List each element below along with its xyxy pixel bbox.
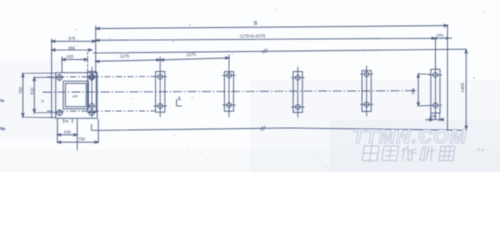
svg-text:750: 750 [18, 86, 23, 94]
watermark TTMN.COM [353, 126, 468, 148]
plate P1 at flange [88, 67, 97, 118]
dimension 240 below flange [57, 119, 77, 150]
stiffener plate P4 [291, 67, 304, 118]
break mark on bottom line [261, 126, 266, 131]
svg-text:B: B [254, 21, 258, 27]
svg-text:A: A [41, 99, 44, 104]
svg-text:1275: 1275 [186, 52, 196, 57]
svg-text:TTMN.COM: TTMN.COM [353, 126, 468, 148]
flange bolt hole TL [56, 74, 63, 81]
step leader below flange right [92, 124, 99, 130]
section label A with leader [177, 100, 183, 107]
extension line left end x96 [95, 26, 97, 74]
svg-text:1275: 1275 [120, 53, 130, 58]
dimension 420 [62, 52, 88, 72]
stiffener plate P6 [429, 65, 442, 120]
flange inner square [63, 81, 88, 109]
centreline break tick near P6 [412, 89, 416, 93]
top bolt-row chain line [47, 76, 156, 78]
beam top edge [93, 49, 467, 53]
svg-text:420: 420 [67, 54, 75, 59]
dimension 1400 vertical right [465, 50, 468, 130]
svg-text:700: 700 [78, 136, 86, 141]
flange inner square second line [65, 83, 86, 106]
left edge smudge 1 [0, 100, 4, 102]
dimension (95) bottom right [425, 114, 444, 122]
bottom bolt-row chain line [47, 110, 156, 112]
beam right end edge [447, 25, 449, 130]
dimension (95) top right [431, 37, 452, 40]
watermark chinese characters [362, 144, 455, 163]
scan specks [25, 9, 484, 168]
centreline of beam (chain) [43, 91, 417, 93]
svg-text:95: 95 [65, 119, 69, 123]
svg-text:510: 510 [29, 87, 34, 95]
svg-text:⌀40: ⌀40 [72, 95, 78, 99]
svg-text:240: 240 [64, 129, 72, 134]
paper mottling [0, 60, 500, 172]
stiffener plate P2 [154, 66, 167, 117]
bay dimension 1275 no1 [96, 59, 161, 63]
flange bolt hole BR [88, 110, 95, 115]
svg-text:(95): (95) [430, 113, 438, 118]
dimension B line [96, 24, 448, 30]
dimension 675 [52, 40, 96, 43]
svg-text:1275×5=6375: 1275×5=6375 [240, 33, 267, 38]
svg-text:750: 750 [411, 88, 416, 95]
svg-text:(95): (95) [437, 32, 445, 37]
extension line plate6 centre up [434, 38, 436, 69]
beam bottom long line [98, 128, 467, 130]
flange bolt hole BL [56, 109, 63, 116]
dimension 750 hole pitch at P6 [417, 74, 430, 106]
background paper [0, 0, 500, 172]
left edge smudge 2 [0, 128, 5, 130]
bay dimension 1275 no2 [160, 55, 229, 67]
dimension 750 vertical left [22, 73, 56, 118]
dimension 510 vertical left [33, 77, 57, 112]
stiffener plate P5 [360, 66, 373, 117]
svg-text:456: 456 [68, 46, 76, 51]
dimension 700 below flange [57, 119, 98, 144]
faint speck right [478, 149, 484, 152]
label 95 below flange [64, 119, 73, 123]
svg-text:675: 675 [69, 36, 77, 41]
break mark on top edge [263, 49, 268, 54]
dimension line 1275x5 [96, 37, 436, 42]
left extension line x51.6 [51, 39, 53, 119]
svg-text:1400: 1400 [460, 82, 465, 92]
flange bolt hole TR [88, 75, 95, 80]
stiffener plate P3 [222, 66, 235, 117]
flange outer square [56, 73, 97, 119]
dimension 456 [52, 49, 92, 52]
